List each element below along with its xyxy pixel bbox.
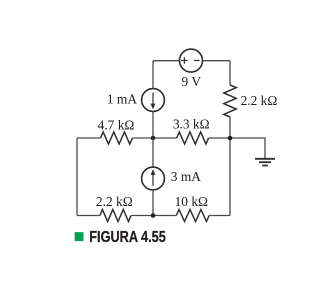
resistor 10 kΩ: [176, 210, 209, 222]
junction node at bottom rail / I2 branch: [151, 213, 156, 218]
resistor 3.3 kΩ: [177, 132, 209, 144]
svg-text:4.7 kΩ: 4.7 kΩ: [98, 117, 135, 132]
wire mid vertical (middle rail to I2): [152, 138, 154, 167]
wire middle rail left segment: [77, 137, 101, 139]
wire bottom rail left segment: [77, 215, 100, 217]
svg-text:3 mA: 3 mA: [171, 169, 201, 184]
current source I2 3 mA (up arrow): [142, 167, 165, 190]
resistor 2.2 kΩ bottom: [100, 210, 131, 222]
wire mid vertical upper (top rail to I1): [152, 61, 154, 89]
resistor 4.7 kΩ: [101, 132, 133, 144]
junction node at middle rail / I1 branch: [151, 136, 156, 141]
svg-text:FIGURA 4.55: FIGURA 4.55: [89, 229, 166, 246]
svg-text:9 V: 9 V: [182, 74, 202, 89]
wire top rail left segment: [153, 60, 180, 62]
caption square marker: [75, 232, 84, 241]
svg-text:2.2 kΩ: 2.2 kΩ: [241, 93, 278, 108]
svg-text:3.3 kΩ: 3.3 kΩ: [173, 117, 210, 132]
current source I1 1 mA (down arrow): [142, 89, 165, 112]
wire right rail lower: [229, 117, 231, 216]
svg-text:2.2 kΩ: 2.2 kΩ: [96, 194, 133, 209]
wire top rail right segment: [202, 60, 230, 62]
wire mid vertical (I1 to middle rail): [152, 111, 154, 138]
wire middle rail right segment: [209, 137, 230, 139]
ground: [255, 159, 275, 166]
wire bottom rail center segment: [131, 215, 176, 217]
wire mid vertical (I2 to bottom rail): [152, 190, 154, 216]
voltage source V1 9V: [180, 49, 203, 72]
wire right rail upper: [229, 61, 231, 85]
svg-text:10 kΩ: 10 kΩ: [175, 194, 208, 209]
svg-text:1 mA: 1 mA: [107, 92, 137, 107]
junction node at middle rail / right rail: [228, 136, 233, 141]
wire bottom rail right segment: [209, 215, 230, 217]
wire middle rail center segment: [132, 137, 176, 139]
resistor 2.2 kΩ right vertical: [224, 85, 236, 117]
wire ground stub: [230, 138, 265, 159]
wire left rail: [76, 138, 78, 216]
